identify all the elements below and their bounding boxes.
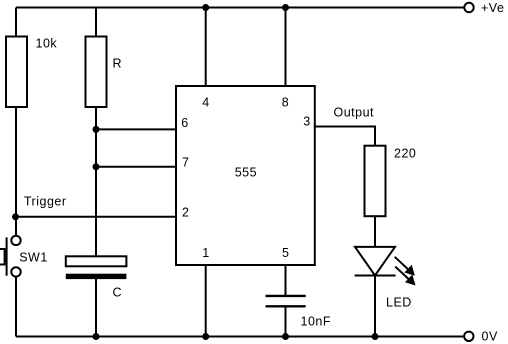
wire: pin 3 output to 220 resistor (315, 127, 375, 147)
capacitor C top plate (66, 256, 127, 266)
junction: 10nF / 0V rail (282, 333, 289, 340)
LED light arrow 1 (395, 257, 415, 276)
SW1 bottom contact (11, 267, 20, 276)
SW1 button cap (0, 249, 5, 265)
LED cathode bar (355, 275, 396, 277)
svg-text:C: C (113, 286, 123, 300)
wire: pin 1 to 0V rail (205, 265, 207, 337)
wire: SW1 bottom to 0V rail (15, 277, 17, 337)
wire: LED cathode to 0V rail (374, 276, 376, 337)
ground terminal 0V (464, 330, 498, 344)
10nF top plate (266, 295, 306, 297)
op-amp/IC U1 555 timer body (176, 86, 315, 265)
svg-text:8: 8 (282, 96, 289, 110)
wire: trigger line to pin 2 (16, 216, 176, 218)
wire: 220 resistor to LED anode (374, 216, 376, 248)
resistor R3 220 body (365, 146, 386, 217)
wire: R / C vertical branch (95, 8, 97, 257)
capacitor C (polarized) (66, 256, 127, 299)
junction: pin 7 branch (93, 163, 100, 170)
LED light arrow 2 (395, 267, 415, 286)
svg-text:1: 1 (202, 246, 209, 260)
junction: R bottom / pin 6 (93, 126, 100, 133)
switch SW1 (push button) (0, 236, 48, 277)
capacitor C bottom plate (66, 274, 127, 279)
junction: pin 8 / +Ve rail (282, 4, 289, 11)
wire: +Ve top supply rail (16, 7, 464, 9)
junction: trigger / left rail (12, 213, 19, 220)
capacitor C2 10nF (266, 296, 332, 329)
wire: 10nF capacitor to 0V rail (285, 306, 287, 336)
svg-text:2: 2 (182, 205, 189, 219)
power terminal +Ve (464, 1, 504, 15)
svg-text:555: 555 (235, 166, 257, 180)
svg-text:5: 5 (282, 246, 289, 260)
svg-text:6: 6 (181, 116, 188, 130)
junction: pin 1 / 0V rail (202, 333, 209, 340)
LED D1 (355, 247, 416, 310)
SW1 actuator bar (6, 237, 8, 275)
LED anode triangle (355, 247, 395, 276)
svg-text:4: 4 (202, 96, 209, 110)
svg-text:10nF: 10nF (301, 315, 332, 329)
wire: pin 8 to +Ve rail (285, 8, 287, 87)
wire: capacitor C to 0V rail (95, 279, 97, 337)
wire: pin 5 to 10nF capacitor (285, 265, 287, 296)
wire: pin 7 to R bottom node (96, 166, 176, 168)
resistor R body (R) (86, 37, 107, 108)
svg-text:Output: Output (334, 106, 375, 120)
junction: capacitor C / 0V rail (93, 333, 100, 340)
svg-text:+Ve: +Ve (481, 1, 504, 15)
svg-text:7: 7 (182, 155, 189, 169)
junction: pin 4 / +Ve rail (202, 4, 209, 11)
svg-text:0V: 0V (482, 330, 498, 344)
svg-text:LED: LED (386, 296, 412, 310)
wire: pin 4 to +Ve rail (205, 8, 207, 87)
SW1 top contact (11, 236, 20, 245)
wire: pin 6 to R bottom node (96, 128, 176, 130)
junction: LED / 0V rail (372, 333, 379, 340)
svg-text:10k: 10k (36, 37, 58, 51)
svg-text:SW1: SW1 (19, 251, 48, 265)
wire: left vertical (10k / trigger / SW1 branch) (15, 8, 17, 236)
wire: 0V bottom rail (16, 336, 463, 338)
svg-text:R: R (113, 57, 123, 71)
resistor R1 10k body (6, 37, 27, 108)
svg-text:220: 220 (394, 147, 416, 161)
10nF bottom plate (266, 305, 306, 307)
svg-text:3: 3 (303, 115, 310, 129)
svg-text:Trigger: Trigger (24, 195, 67, 209)
